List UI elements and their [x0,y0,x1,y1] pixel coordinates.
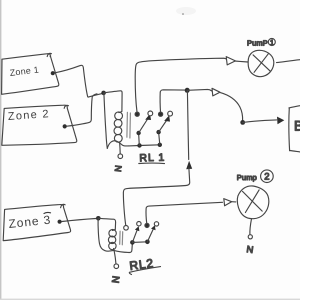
switch RL2-S1 NO contact [137,222,141,226]
switch RL2-S2 arm [147,229,153,242]
svg-text:B: B [294,119,300,134]
svg-text:N: N [113,165,124,173]
wire zone3 to junction D [62,219,96,222]
switch RL1-S1 live contact [135,112,139,116]
pump P2 X stroke 2 [245,190,259,213]
zone valve box ZONE3 [3,205,70,241]
node junction A [101,91,106,96]
svg-text:N: N [246,244,254,256]
arrow to pump2 [224,199,232,206]
relay coil RL2 [109,230,116,237]
svg-text:Pump: Pump [237,173,257,182]
switch RL2-S2 NO contact [154,222,158,226]
relay coil RL1 [115,112,123,120]
wire RL2 bus [114,245,133,253]
label pump2 circled 2 [261,170,274,183]
zone valve box ZONE1 [2,54,59,95]
node zone3 terminal [58,220,62,224]
relay RL2 core lines [119,231,121,244]
wire pump1 to right edge [277,60,301,63]
svg-text:2: 2 [264,172,269,183]
photo edge left [0,0,1,300]
wire junction A down to RL1 bottom [104,93,107,148]
node pump2 N terminal [248,235,252,239]
switch RL2-S2 arrowhead [151,225,156,230]
node RL2 pivot2 [145,240,150,245]
wire node C to boiler [243,120,277,123]
wire arrow to pump2 body [232,201,236,203]
zone valve box ZONE2 [2,105,77,145]
wire junction A to RL1 coil top [104,91,123,112]
switch RL2-S1 arm [132,230,137,243]
svg-text:RL2: RL2 [129,256,155,273]
zone3 top-right corner curl [61,204,66,207]
node junction D [96,216,101,221]
pump P1 X stroke 2 [254,54,268,73]
switch RL1-S2 NO contact [168,111,173,116]
zone3 overbar on 3 [44,212,51,213]
wire RL1 bus [128,145,159,146]
wire junction D down and arc to RL2 bus [98,218,114,251]
pump P1 body [248,50,274,76]
wire pump2 down to N [250,219,252,235]
wire junction B down [187,90,188,159]
node RL2 N terminal [114,264,119,269]
switch RL2-S1 arrowhead [135,226,140,231]
switch RL2-S2 live contact [145,223,149,227]
label pump1 circled 1 [268,39,275,46]
pump P2 body [237,186,269,219]
arrow into boiler [277,117,284,125]
zone1 top-right corner curl [47,53,51,56]
node zone1 terminal [51,71,55,75]
pump P1 X stroke 1 [253,55,270,71]
arrow up on junction B drop [186,161,192,170]
switch RL2-S1 live contact [124,226,129,231]
wire junction D to RL2 coil top [98,218,115,229]
node zone2 terminal [63,124,67,128]
wire arrow curve down to node C [220,92,243,121]
switch RL1-S2 arm [159,121,167,133]
wire arc to RL1 bus [107,141,128,149]
switch RL1-S1 arrowhead [145,114,151,120]
underline RL1 [139,162,165,165]
zone2 top-right corner curl [64,105,68,108]
arrow to boiler curve [212,88,220,96]
svg-text:Zone 1: Zone 1 [9,64,39,77]
underline RL2 [129,267,160,275]
switch RL1-S1 arm [139,119,148,133]
switch RL1-S2 riser [159,134,160,145]
svg-text:PumP: PumP [247,39,268,48]
wire RL2 bus pivot1 to pivot2 [132,241,147,244]
arrow on pump1 wire [226,57,235,65]
photo edge bottom [0,299,300,300]
wire junction B right [187,89,212,91]
svg-text:Zone 2: Zone 2 [7,108,50,123]
svg-text:1: 1 [270,38,274,47]
wire RL2-S2 contact up to pump2 feed [146,202,222,223]
wire RL2 coil bottom to N [114,249,116,264]
svg-text:N: N [109,275,121,284]
paper smudge top [176,7,196,15]
wire zone2 to junction A [67,94,97,126]
node RL1 bus dot 2 [158,143,162,147]
node C [240,120,245,125]
switch RL1-S2 live contact [159,112,163,116]
switch RL1-S2 pivot [156,130,160,134]
svg-text:Zone 3: Zone 3 [8,213,52,231]
ink speck [182,13,184,15]
wire drop continues to RL2 feed [123,168,189,225]
node junction B [185,88,190,93]
switch RL1-S1 riser [138,135,141,146]
relay RL1 core lines [126,112,129,137]
boiler box B [289,106,300,108]
node RL1 N terminal [118,154,123,159]
switch RL1-S1 NO contact [148,111,153,116]
switch RL1-S1 pivot [136,131,140,135]
wire zone1 to junction A [55,65,88,96]
wire arrow to pump1 [235,61,248,62]
node RL1 bus dot 1 [137,143,141,147]
wire RL1-S2 contact up to junction B [160,90,185,112]
wire RL1-S1 contact up to pump1 feed [135,58,227,112]
pump P2 X stroke 1 [243,191,263,211]
wire junction A left link [88,93,103,97]
switch RL1-S2 arrowhead [164,115,170,121]
wire RL1 coil bottom to N [119,142,122,154]
node RL2 pivot1 [130,240,135,245]
